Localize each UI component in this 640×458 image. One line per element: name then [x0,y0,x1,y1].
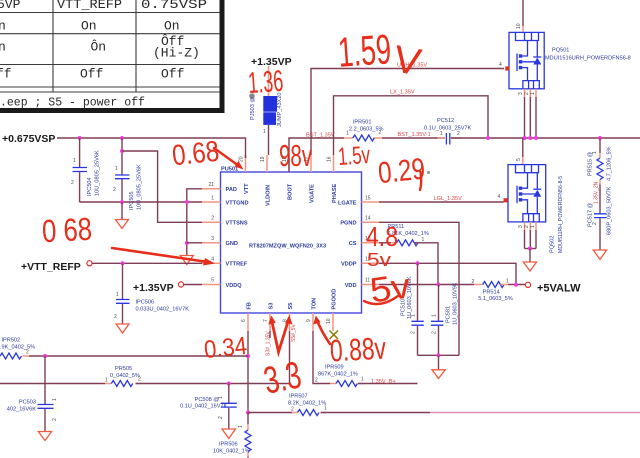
svg-text:LX_1.35V: LX_1.35V [390,90,415,96]
svg-text:2: 2 [211,216,214,222]
svg-text:6: 6 [241,319,247,322]
svg-text:S5: S5 [288,303,294,310]
svg-text:2: 2 [71,180,74,186]
svg-text:PHASE: PHASE [332,183,338,203]
svg-text:IPR506: IPR506 [219,442,238,448]
svg-text:PGND: PGND [340,221,356,227]
svg-text:5: 5 [211,278,214,284]
svg-text:Ôn: Ôn [91,40,107,55]
svg-text:2: 2 [457,131,460,137]
svg-text:1.5v: 1.5v [337,141,371,171]
svg-text:VTT: VTT [244,183,250,194]
svg-text:S5#_5V: S5#_5V [291,324,297,342]
svg-text:0.34: 0.34 [203,332,249,364]
svg-text:0.68: 0.68 [171,136,221,173]
svg-text:1: 1 [530,225,536,228]
svg-text:867K_0402_1%: 867K_0402_1% [318,372,358,378]
svg-text:RT8207MZQW_WQFN20_3X3: RT8207MZQW_WQFN20_3X3 [249,244,326,250]
svg-text:4.7_1206_5%: 4.7_1206_5% [607,146,613,181]
svg-text:CS: CS [349,241,357,247]
svg-text:15: 15 [365,196,371,202]
svg-text:PC581: PC581 [446,306,452,323]
svg-text:GND: GND [226,241,238,247]
svg-text:PC512: PC512 [437,118,454,124]
svg-text:0.29: 0.29 [377,152,427,190]
svg-text:3: 3 [211,236,214,242]
svg-text:IPC506: IPC506 [136,300,155,306]
svg-text:VDDP: VDDP [341,262,357,268]
svg-text:0_0402_5%: 0_0402_5% [110,373,140,379]
svg-text:On: On [164,19,180,34]
svg-text:2: 2 [291,407,294,413]
svg-text:2: 2 [218,416,224,419]
svg-text:Off: Off [80,67,103,82]
svg-text:2: 2 [52,418,58,421]
svg-text:1: 1 [361,377,364,383]
svg-text:5v: 5v [367,250,391,270]
svg-text:Off: Off [161,67,184,82]
svg-text:PQ502: PQ502 [550,236,556,253]
svg-text:2: 2 [114,314,117,320]
svg-text:2: 2 [315,378,318,384]
svg-text:MDUI511RH_POWERDFN56-8-5: MDUI511RH_POWERDFN56-8-5 [558,176,564,253]
svg-text:PGOOD: PGOOD [331,289,337,310]
svg-text:IPR501: IPR501 [353,120,372,126]
svg-text:1.35V_B+: 1.35V_B+ [371,379,396,385]
svg-text:PR505: PR505 [115,366,132,372]
svg-text:+0.675VSP: +0.675VSP [2,133,55,145]
svg-text:1: 1 [116,292,119,298]
svg-text:(Hi-Z): (Hi-Z) [153,46,200,61]
svg-text:1: 1 [324,406,327,412]
svg-text:4: 4 [211,257,214,263]
svg-text:1: 1 [52,398,58,401]
svg-text:10K_0402_1%: 10K_0402_1% [213,449,250,455]
svg-text:MDUI1516URH_POWERDFN56-8: MDUI1516URH_POWERDFN56-8 [545,56,631,62]
svg-text:20: 20 [239,156,245,162]
svg-text:10: 10 [326,318,332,324]
svg-text:0.75VSP: 0.75VSP [141,0,207,12]
svg-text:2: 2 [411,331,417,334]
svg-text:VTTSNS: VTTSNS [226,221,248,227]
svg-text:16: 16 [327,156,333,162]
svg-text:IPR502: IPR502 [2,338,21,344]
svg-text:10U_0805_25V6K: 10U_0805_25V6K [95,150,101,196]
svg-text:2: 2 [113,187,116,193]
svg-text:1: 1 [432,314,438,317]
svg-text:+1.35VP: +1.35VP [133,282,174,294]
svg-text:1: 1 [218,396,224,399]
svg-text:PJ503 @: PJ503 @ [250,97,256,120]
svg-text:1: 1 [73,158,76,164]
svg-text:7: 7 [263,319,269,322]
svg-text:5: 5 [516,158,522,161]
svg-text:2: 2 [432,331,438,334]
svg-text:1.36: 1.36 [247,65,284,100]
svg-text:PAD: PAD [226,187,237,193]
svg-text:FB: FB [246,302,252,309]
svg-text:2: 2 [379,130,382,136]
svg-text:1: 1 [346,131,349,137]
svg-text:IPC505: IPC505 [129,191,135,210]
svg-text:1: 1 [263,129,266,135]
svg-text:.9K_0402_5%: .9K_0402_5% [0,345,35,351]
svg-text:+VTT_REFP: +VTT_REFP [21,261,81,273]
svg-text:19: 19 [260,156,266,162]
svg-text:PC508 @: PC508 @ [195,397,220,403]
svg-text:21: 21 [208,182,214,188]
svg-text:VLDOIN: VLDOIN [265,185,271,206]
svg-text:0.1U_0402_16V7K: 0.1U_0402_16V7K [180,404,228,410]
svg-text:IPC504: IPC504 [87,177,93,196]
svg-text:VGATE: VGATE [309,184,315,203]
svg-text:3.3: 3.3 [260,354,304,402]
svg-text:1: 1 [592,151,598,154]
svg-text:PC503: PC503 [19,400,36,406]
svg-text:2: 2 [138,377,141,383]
svg-text:1: 1 [506,279,509,285]
svg-text:PR515 @: PR515 @ [588,151,594,176]
svg-text:BST_1.35V-1: BST_1.35V-1 [398,132,431,138]
svg-text:1U_0603_10V9K: 1U_0603_10V9K [453,282,459,325]
svg-text:n: n [0,40,6,55]
svg-text:+5VALW: +5VALW [537,283,581,295]
svg-text:1: 1 [211,196,214,202]
svg-text:VTTGND: VTTGND [226,201,249,207]
svg-text:1: 1 [530,92,536,95]
svg-text:1.59: 1.59 [336,25,392,76]
svg-text:680P_0603_50V7K: 680P_0603_50V7K [607,186,613,235]
svg-text:402_16V6K: 402_16V6K [7,407,37,413]
svg-text:5.1_0603_5%: 5.1_0603_5% [478,296,513,302]
svg-text:0 68: 0 68 [41,211,93,250]
svg-text:TON: TON [311,298,317,310]
svg-text:VTTREF: VTTREF [226,262,248,268]
svg-text:PQ501: PQ501 [552,48,569,54]
svg-text:PR514: PR514 [483,290,500,296]
svg-text:0.88v: 0.88v [329,331,387,369]
svg-text:1: 1 [105,378,108,384]
svg-text:10U_0805_25V6K: 10U_0805_25V6K [137,164,143,210]
svg-text:2: 2 [26,350,29,356]
svg-text:2: 2 [592,222,598,225]
svg-text:1: 1 [115,166,118,172]
svg-text:LGATE: LGATE [338,201,357,207]
svg-text:9: 9 [306,319,312,322]
svg-text:1: 1 [440,131,443,137]
svg-text:0.033U_0402_16V7K: 0.033U_0402_16V7K [136,307,190,313]
svg-text:10: 10 [516,23,522,29]
svg-text:On: On [81,19,97,34]
svg-text:S3: S3 [268,303,274,310]
svg-text:4: 4 [498,194,501,200]
svg-text:PU501: PU501 [221,167,238,173]
svg-text:98v: 98v [279,138,312,173]
svg-text:S3#_1.35V: S3#_1.35V [266,331,272,356]
svg-text:2: 2 [472,279,475,285]
svg-text:1: 1 [411,314,417,317]
svg-text:VDDQ: VDDQ [226,283,243,289]
svg-text:4: 4 [499,62,502,68]
svg-text:VDD: VDD [345,283,357,289]
svg-text:4.8: 4.8 [366,221,398,252]
svg-text:.eep ; S5 - power off: .eep ; S5 - power off [0,97,145,110]
svg-text:0.1U_0603_25V7K: 0.1U_0603_25V7K [424,126,472,132]
svg-text:1: 1 [238,425,244,428]
svg-text:VTT_REFP: VTT_REFP [57,0,122,12]
svg-text:ff: ff [0,67,12,82]
svg-text:5VP: 5VP [0,0,21,12]
svg-text:LGL_1.35V: LGL_1.35V [434,196,463,202]
svg-text:1: 1 [422,237,425,243]
svg-text:1.35V_2N: 1.35V_2N [594,181,600,204]
svg-text:n: n [0,19,6,34]
svg-text:BOOT: BOOT [287,183,293,200]
